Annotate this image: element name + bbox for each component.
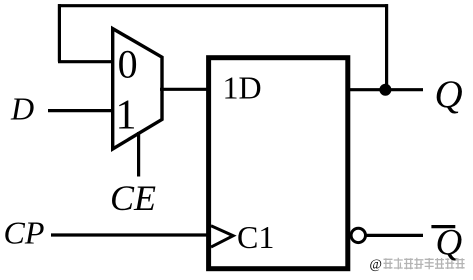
- wire: feedback top horizontal from Q node to mux select-0 branch: [58, 4, 388, 7]
- svg-text:1D: 1D: [223, 70, 262, 106]
- svg-text:D: D: [10, 91, 34, 127]
- multiplexer MUX (2:1 trapezoid): [113, 29, 162, 149]
- wire: Q-bar output horizontal: [366, 234, 423, 237]
- flip-flop U1 (D flip-flop body): [209, 58, 348, 269]
- svg-text:C1: C1: [237, 219, 274, 255]
- flip-flop clock chevron at C1: [211, 226, 233, 247]
- wire: D input horizontal to mux 1 input: [48, 109, 113, 112]
- wire: mux output to flip-flop 1D input: [160, 88, 209, 91]
- svg-text:0: 0: [118, 41, 138, 86]
- svg-text:1: 1: [116, 93, 137, 139]
- svg-text:CP: CP: [4, 215, 45, 251]
- svg-text:Q: Q: [436, 223, 463, 264]
- wire: CE select vertical into mux bottom: [137, 132, 140, 177]
- svg-text:Q: Q: [435, 73, 463, 116]
- inverter bubble on Q-bar output: [351, 228, 365, 242]
- svg-text:CE: CE: [110, 178, 156, 218]
- wire: Q output horizontal from flip-flop to label: [348, 88, 423, 91]
- node: junction dot on Q output: [379, 84, 391, 96]
- overline of Q-bar: [431, 225, 455, 228]
- wire: feedback left vertical down to mux 0 input: [58, 4, 61, 62]
- watermark @juejin community (gray): [370, 256, 465, 271]
- wire: feedback right vertical from top down to Q junction: [385, 4, 388, 90]
- svg-text:@: @: [370, 256, 382, 271]
- wire: CP clock horizontal to flip-flop C1: [51, 233, 209, 236]
- wire: mux 0-input horizontal: [58, 60, 113, 63]
